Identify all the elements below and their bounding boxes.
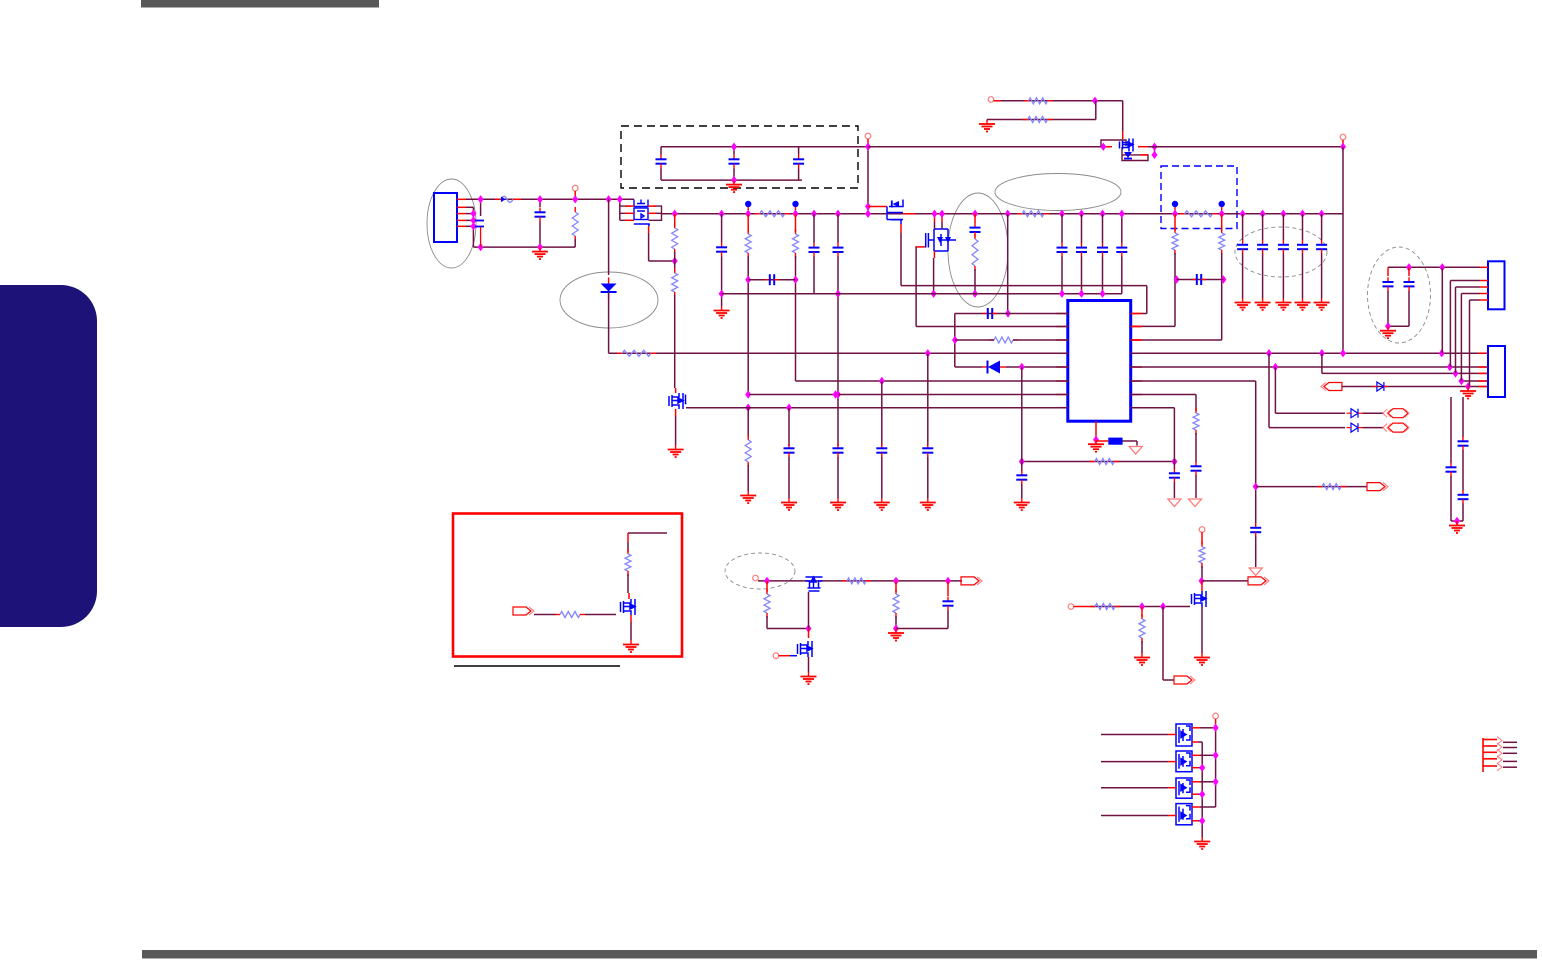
wire 881 drop [881,381,883,446]
Q4 gate down [900,220,902,224]
junction VOUT node [1340,143,1346,151]
wire 1202 down [1201,566,1203,581]
junction row5 1449 [1447,363,1453,371]
resistor R9 [745,229,751,258]
Q10 emitter wire [1192,741,1198,743]
junction vref R node [1171,457,1177,465]
junction en3 1163 [1160,602,1166,610]
wire Q2 gate wire [648,233,650,261]
wire J2 row1 [1388,266,1480,268]
junction arr e3 [1199,790,1205,798]
wire 1469 drop [1469,300,1471,387]
junction arr e4 [1199,817,1205,825]
connector J4 [1488,346,1505,397]
wire 1022 gnd lead [1021,484,1023,498]
junction row381 1461 [1458,377,1464,385]
junction R1 top [572,195,578,203]
wire rb vert0 [627,542,629,552]
ground GND3 [979,120,995,132]
wire C19 bot lead [1302,254,1304,299]
resistor R22 [842,578,871,584]
junction 1256 486 node [1253,482,1259,490]
wire C13 top lead [1061,214,1063,243]
wire Q5 gate corner [915,247,917,327]
wire row3 wire [955,339,994,341]
transistor Q3 [669,393,683,409]
wire C20 top lead [1321,214,1323,240]
wire Q3 src down [675,416,677,445]
wire 1275 drop [1274,367,1276,413]
wire J2 row5 [1470,299,1481,301]
junction capchain gnd [1454,517,1460,525]
junction C18 top node [1280,210,1286,218]
wire C8 top lead [813,214,815,243]
junction vref L node [1019,457,1025,465]
transistor Q8 [798,641,813,657]
wire C18 top lead [1282,214,1284,240]
junction C16 top node [1240,210,1246,218]
wire w628a [767,628,809,630]
junction C17 top node [1260,210,1266,218]
ground GND12 [1014,498,1030,510]
wire 1196 drop0 [1195,395,1197,412]
red highlight box [453,514,682,657]
junction return node [478,243,484,251]
junction row3 954 node [952,336,958,344]
capacitor C24 [876,444,887,458]
wire row8 right [1131,407,1175,409]
capacitor C7 [765,274,779,285]
junction caplink2 L [1174,275,1180,283]
junction C9 293 node [835,290,841,298]
wire w427b [1363,427,1385,429]
junction TP2 node [793,210,799,218]
wire 1269 drop [1268,353,1270,427]
wire FB1 out [1123,440,1137,442]
resistor R16 [617,350,656,356]
ground GND14 [1380,326,1396,338]
junction row5 1275 [1272,363,1278,371]
wire Q5 d2 [941,222,943,229]
junction cap feed [478,195,484,203]
U1 pin R4 [1131,352,1142,354]
wire C2 top lead [539,199,541,207]
wire 927 gnd lead [927,457,929,498]
wire R14 down [1221,253,1223,340]
junction row8 748 [745,404,751,412]
wire caplink2 [1177,279,1224,281]
wire C14 top lead [1081,214,1083,243]
wire row1 right link [1141,313,1147,315]
fuse F1 [495,196,521,202]
ground GND C20 [1314,298,1330,310]
wire 881 gnd lead [881,457,883,498]
capacitor C31 [1446,463,1457,477]
J3 stub 1 [1503,741,1517,743]
Q13 base wire [1101,815,1168,817]
annotation ellipse connector J1 [427,179,476,268]
junction J1 pin3 node [470,216,476,224]
junction row4 1269 [1266,349,1272,357]
U1 pin L6 [1056,380,1068,382]
transistor Q13 [1176,804,1192,825]
U1 pin L3 [1056,339,1068,341]
wire Rdiv link [1095,101,1097,120]
annotation ellipse enable node [725,553,795,589]
ground GND6 [740,491,756,503]
wire 1451 drop [1450,397,1452,463]
junction row386 1468 [1465,382,1471,390]
junction C15 bot node [1100,290,1106,298]
wire w413 [1275,412,1345,414]
capacitor C35 [943,597,954,611]
junction row7 748 [745,390,751,398]
wire rail 293 [722,293,1122,295]
diode D2 [982,361,1006,374]
J3 stub 2 [1503,747,1517,749]
wire C2 bottom lead [539,222,541,248]
connector J3 [1483,738,1497,772]
junction outcap gnd [1385,322,1391,330]
terminal VOUT terminal [1340,134,1346,140]
underline [454,665,620,667]
wire C29 down [1387,291,1389,326]
wire C20 bot lead [1321,254,1323,299]
junction J2row1 1409 [1406,263,1412,271]
wire 1022 drop [1021,367,1023,471]
wire rb gate wire [534,614,556,616]
capacitor C34 [1250,523,1261,537]
wire row5 right [1131,366,1488,368]
resistor R13 [1172,228,1178,255]
capacitor C2 [535,208,546,222]
wire row2 right [1131,325,1175,327]
resistor R18 [1193,408,1199,435]
Q10 base wire [1101,734,1168,736]
transistor Q5 pack [926,229,956,251]
wire 1451 drop2 [1450,476,1452,521]
wire rb vert [627,574,629,593]
transistor Q7 [806,577,823,591]
transistor Q10 [1176,724,1192,746]
wire R11 down [795,256,797,381]
wire C3 top lead [660,147,662,155]
wire 1008 vert [1007,214,1009,314]
wire Q2 gate drop [619,199,621,220]
wire 1442 drop [1441,267,1443,353]
ground GND19 [1134,653,1150,665]
Q2 outline [620,206,662,220]
wire 948 down [947,611,949,629]
Q12 collector wire [1192,781,1200,783]
U1 pin R3 [1131,339,1142,341]
test point TP1 [745,201,751,214]
wire vref wire [1022,461,1175,463]
junction en 948 [945,577,951,585]
wire q7 gate drop [808,592,810,629]
capacitor C33 [1458,490,1469,504]
wire mid rail right drop [1146,286,1148,314]
wire C10 gnd lead [837,457,839,498]
diode D3 [1347,409,1363,418]
diode Q4 body [893,201,900,207]
ground GND16 [623,640,639,652]
junction pg node [1199,577,1205,585]
wire C17 bot lead [1262,254,1264,299]
resistor R11 [793,229,799,258]
wire C30 down [1408,291,1410,326]
junction bus1 D1 node [606,195,612,203]
J3 stub 4 [1503,760,1517,762]
pin 3 [457,213,466,215]
junction caplink1 L [745,276,751,284]
capacitor C10 [833,444,844,458]
capacitor C13 [1057,243,1068,257]
transistor Q9 [1192,591,1207,607]
junction row4 927 node [925,349,931,357]
junction 628 node [806,624,812,632]
annotation ellipse cap bank [1235,227,1327,277]
test point TP4 [1219,201,1225,214]
pin 5 [457,225,466,227]
ground GND8 [920,498,936,510]
wire C15 top lead [1102,214,1104,243]
test point TP3 [1172,201,1178,214]
wire 3V3 bus [662,213,1344,215]
U1 pin L7 [1056,394,1068,396]
wire caplink1 [748,279,795,281]
wire gnd return [473,246,575,248]
junction 896 node [893,624,899,632]
wire en wire [758,580,962,582]
junction TP3 node [1172,210,1178,218]
wire C16 top lead [1242,214,1244,240]
transistor Q1a [1120,139,1134,152]
ground GND C19 [1295,298,1311,310]
resistor R2 [1024,98,1053,104]
junction R12 bot node [972,290,978,298]
annotation ellipse diode D1 [560,272,658,328]
wire J2 row4 [1461,293,1480,295]
capacitor C17 [1257,240,1268,254]
junction C4 bottom node [731,176,737,184]
junction arr e2 [1199,764,1205,772]
capacitor C32 [1458,437,1469,451]
capacitor C15 [1097,243,1108,257]
junction row373 1455 [1453,369,1459,377]
J3 arrows [1497,737,1502,772]
wire Q2 gate wire2 [649,260,675,262]
junction C2 gnd node [537,243,543,251]
wire 1455 drop [1455,287,1457,373]
transistor Q1 outline [1101,140,1148,161]
capacitor C28 [1191,462,1202,476]
wire row7 wire [749,394,1068,396]
wire R12 down [974,269,976,294]
junction caplink1 R [793,276,799,284]
junction U1 gnd node [1093,436,1099,444]
transistor Q11 [1176,751,1192,772]
capacitor C3 [656,155,667,169]
wire VOUT drop [1342,147,1344,354]
wire row 373 [1322,372,1488,374]
wire pg out [1202,580,1249,582]
wire Rdiv top wire [1001,100,1123,102]
junction R7 mid node [672,257,678,265]
junction C6 top node [719,210,725,218]
U1 pin L5 [1056,366,1068,368]
wire C17 top lead [1262,214,1264,240]
resistor R23 [764,589,770,618]
junction rail 868 node [865,210,871,218]
capacitor C26 [1016,471,1027,485]
junction row5 1022 node [1019,363,1025,371]
wire array gnd vert [1201,742,1203,837]
wire R9 down [747,256,749,395]
gnd jog [987,119,994,121]
capacitor C9 [833,243,844,257]
wire row1 wire [955,313,1068,315]
terminal EN2 terminal [773,653,779,659]
wire filter top rail [661,146,868,148]
diode D1 [601,278,617,299]
wire 1463 drop3 [1462,504,1464,522]
wire q9 src [1201,607,1203,653]
junction 1008 top node [1005,210,1011,218]
ferrite bead FB1 [1108,438,1122,445]
wire 748 down2 [747,408,749,438]
wire C3 bottom lead [660,169,662,181]
U1 pin R5 [1131,366,1142,368]
resistor R6 bus [1180,211,1218,217]
Q2 gate bracket [634,224,649,226]
junction Q1 out node [1152,143,1158,151]
wire row 386 [1342,386,1488,388]
wire 1450 drop [1449,281,1451,368]
capacitor C29 [1383,277,1394,291]
wire 748 gnd lead [747,465,749,491]
U1 pin R8 [1131,407,1142,409]
test point TP2 [792,201,798,214]
capacitor C27 [1169,469,1180,483]
wire C4 top lead [733,147,735,155]
connector J1 [434,193,457,242]
pin 1 [457,198,466,200]
footer bar [142,950,1537,959]
ground GND18 [888,629,904,641]
wire row8 wire [686,407,1068,409]
wire D1 vert bottom [608,293,610,353]
U1 pin R7 [1131,394,1142,396]
terminal tag TAG4 [961,577,982,585]
terminal VIN test [572,185,578,191]
ground GND1 [532,247,548,259]
resistor R21 [555,612,585,618]
Q13 emitter wire [1192,820,1198,822]
wire q8 src [808,657,810,672]
wire capchain link [1451,520,1463,522]
junction J1 pin4 node [470,222,476,230]
diode D5 [1372,382,1388,391]
transistor Q2 pack [634,200,648,220]
J2 pin 1 [1480,266,1488,268]
U1 pin L8 [1056,407,1068,409]
power symbol AGND1 [1129,447,1142,455]
ground GND C18 [1275,298,1291,310]
resistor R19 [1317,484,1346,490]
wire row6 right [1131,380,1256,382]
capacitor C16 [1237,240,1248,254]
capacitor C22 [983,308,997,319]
Q13 collector wire [1192,806,1200,808]
resistor R1 [572,207,578,241]
transistor Q4 [887,200,903,220]
resistor R27 [1199,542,1205,568]
wire rail vert [867,147,869,214]
U1 pin L4 [1056,352,1068,354]
wire C8 bot lead [813,257,815,294]
junction J2row1 1442 [1439,263,1445,271]
junction Q5 src node [931,290,937,298]
Q3 gate bracket [686,395,687,404]
terminal EN3 terminal [1068,604,1074,610]
wire C18 bot lead [1282,254,1284,299]
capacitor C1 [475,221,484,248]
U1 pin GND [1095,421,1097,440]
wire array pwr vert [1215,728,1217,807]
capacitor C5 [793,155,804,169]
wire rail to Q1 [868,146,1101,148]
diode Q1 body [1124,152,1132,158]
junction C13 bot node [1059,290,1065,298]
terminal tag TAG1 [1321,383,1342,391]
J3 stub 3 [1503,752,1517,754]
junction C9 top node [835,210,841,218]
power symbol AGND4 [1249,568,1262,576]
resistor R14 [1219,228,1225,255]
terminal tag TAG6 [1248,577,1269,585]
junction row4 1321 [1319,349,1325,357]
junction Q1 in node [1100,143,1106,151]
wire rb src [630,622,632,640]
capacitor C8 [809,243,820,257]
connector J2 [1488,261,1505,309]
wire row 381 [1461,380,1488,382]
junction C13 top node [1059,210,1065,218]
capacitor C30 [1404,277,1415,291]
resistor R8 [672,268,678,297]
capacitor C4 [729,155,740,169]
wire C6 top lead [721,214,723,243]
diode Q5 body [937,237,943,243]
junction row8 789 node [786,404,792,412]
wire VIN bus1 [466,198,634,200]
capacitor C20 [1316,240,1327,254]
wire 1142 down [1141,641,1143,653]
wire Rdiv bottom wire [994,119,1096,121]
terminal array pwr [1213,713,1219,719]
annotation ellipse RC net [948,193,1008,307]
wire 1196 gnd lead [1195,475,1197,498]
annotation ellipse output caps [1368,247,1431,343]
wire J2 row3 [1456,286,1481,288]
junction bus1 Q2 node [617,195,623,203]
wire rb gate wire2 [585,614,616,616]
terminal EN terminal [753,575,759,581]
junction row7 835 node [833,390,839,398]
J2 pin 4 [1480,293,1488,295]
ground GND C16 [1235,298,1251,310]
